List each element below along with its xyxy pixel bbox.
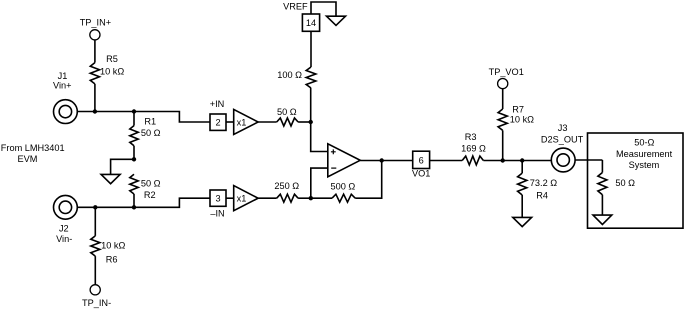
pin 6 VO1 bbox=[412, 151, 430, 178]
node junction R2-J2 bbox=[132, 205, 136, 209]
svg-text:EVM: EVM bbox=[17, 154, 37, 164]
svg-text:50-Ω: 50-Ω bbox=[634, 138, 654, 148]
svg-text:TP_IN-: TP_IN- bbox=[82, 298, 111, 308]
svg-text:x1: x1 bbox=[237, 194, 247, 204]
wire bbox=[311, 2, 336, 16]
svg-text:J3: J3 bbox=[558, 123, 568, 133]
block 50-&#937; measurement system bbox=[588, 133, 684, 228]
svg-text:J2: J2 bbox=[59, 224, 69, 234]
svg-text:VREF: VREF bbox=[283, 2, 308, 12]
connector J3 D2S_OUT bbox=[541, 123, 584, 172]
wire bbox=[311, 197, 332, 199]
pin 3 -IN bbox=[210, 190, 226, 219]
resistor 50 &#937; input bbox=[277, 107, 298, 126]
op-amp U1 bbox=[328, 144, 360, 177]
wire bbox=[133, 112, 135, 126]
node junction R4 bbox=[520, 158, 524, 162]
svg-text:VO1: VO1 bbox=[412, 169, 430, 179]
wire bbox=[601, 195, 603, 215]
resistor R4 73.2 &#937; bbox=[518, 173, 558, 201]
svg-text:x1: x1 bbox=[237, 117, 247, 127]
svg-text:R6: R6 bbox=[106, 254, 118, 264]
test point TP_IN+ bbox=[80, 17, 111, 39]
wire bbox=[133, 194, 135, 207]
resistor 50 &#937; termination bbox=[598, 173, 635, 195]
svg-text:73.2 Ω: 73.2 Ω bbox=[530, 178, 557, 188]
wire bbox=[258, 121, 277, 123]
wire bbox=[111, 159, 134, 174]
svg-text:Measurement: Measurement bbox=[616, 149, 673, 159]
svg-text:+IN: +IN bbox=[210, 99, 225, 109]
svg-text:3: 3 bbox=[215, 194, 220, 204]
svg-text:50 Ω: 50 Ω bbox=[141, 128, 161, 138]
svg-text:R4: R4 bbox=[536, 191, 548, 201]
resistor 100 &#937; bbox=[277, 67, 316, 88]
svg-text:R7: R7 bbox=[512, 104, 524, 114]
svg-text:50 Ω: 50 Ω bbox=[277, 107, 297, 117]
node junction 250-500 bbox=[309, 196, 313, 200]
buffer x1 upper bbox=[234, 109, 258, 134]
svg-text:2: 2 bbox=[215, 118, 220, 128]
svg-text:TP_VO1: TP_VO1 bbox=[489, 67, 524, 77]
svg-text:100 Ω: 100 Ω bbox=[277, 70, 302, 80]
wire bbox=[521, 195, 523, 217]
resistor R2 50 &#937; bbox=[130, 174, 161, 200]
node junction R5-J1 bbox=[93, 109, 97, 113]
wire bbox=[94, 84, 96, 112]
svg-text:Vin+: Vin+ bbox=[53, 80, 71, 90]
svg-text:14: 14 bbox=[306, 18, 316, 28]
svg-text:6: 6 bbox=[419, 156, 424, 166]
wire bbox=[430, 160, 463, 162]
connector J2 Vin- bbox=[54, 195, 78, 244]
wire bbox=[601, 160, 603, 173]
svg-text:500 Ω: 500 Ω bbox=[331, 181, 356, 191]
label From LMH3401 EVM bbox=[1, 143, 65, 164]
resistor R7 10 k&#937; bbox=[498, 104, 534, 130]
ground bbox=[327, 16, 346, 25]
svg-text:50 Ω: 50 Ω bbox=[615, 178, 635, 188]
test point TP_IN- bbox=[82, 285, 111, 308]
svg-text:TP_IN+: TP_IN+ bbox=[80, 17, 111, 27]
resistor R6 10 k&#937; bbox=[91, 236, 126, 264]
wire bbox=[77, 112, 210, 123]
wire bbox=[502, 89, 504, 109]
wire bbox=[298, 121, 311, 123]
node junction R1-J1 bbox=[132, 109, 136, 113]
wire bbox=[298, 197, 311, 199]
svg-text:–IN: –IN bbox=[210, 209, 224, 219]
svg-text:10 kΩ: 10 kΩ bbox=[100, 67, 124, 77]
wire bbox=[502, 130, 504, 160]
svg-text:R5: R5 bbox=[106, 54, 118, 64]
wire bbox=[77, 198, 210, 207]
svg-text:J1: J1 bbox=[58, 71, 68, 81]
svg-text:D2S_OUT: D2S_OUT bbox=[541, 135, 584, 145]
svg-text:R1: R1 bbox=[144, 116, 156, 126]
wire bbox=[311, 168, 328, 198]
svg-text:Vin-: Vin- bbox=[56, 234, 72, 244]
wire bbox=[226, 197, 234, 199]
test point TP_VO1 bbox=[489, 67, 524, 89]
node junction 50-100 bbox=[309, 120, 313, 124]
node junction R7 bbox=[501, 158, 505, 162]
buffer x1 lower bbox=[234, 186, 258, 211]
node junction R6-J2 bbox=[93, 205, 97, 209]
wire bbox=[258, 197, 277, 199]
wire bbox=[94, 256, 96, 285]
node junction R1-R2 bbox=[132, 157, 136, 161]
wire bbox=[311, 122, 328, 152]
resistor R5 10 k&#937; bbox=[90, 54, 124, 84]
svg-text:169 Ω: 169 Ω bbox=[461, 143, 486, 153]
wire bbox=[355, 161, 382, 199]
wire bbox=[575, 159, 602, 161]
pin 2 +IN bbox=[210, 99, 226, 130]
wire bbox=[310, 88, 312, 122]
resistor 250 &#937; bbox=[274, 181, 299, 202]
ground bbox=[513, 217, 532, 226]
svg-text:System: System bbox=[629, 160, 660, 170]
svg-text:10 kΩ: 10 kΩ bbox=[101, 241, 125, 251]
wire bbox=[483, 160, 551, 162]
svg-text:50 Ω: 50 Ω bbox=[141, 178, 161, 188]
wire bbox=[226, 121, 234, 123]
resistor R3 169 &#937; bbox=[461, 132, 486, 165]
wire bbox=[310, 31, 312, 67]
svg-text:10 kΩ: 10 kΩ bbox=[510, 114, 534, 124]
wire bbox=[94, 40, 96, 63]
pin 14 VREF bbox=[283, 2, 320, 32]
wire bbox=[133, 146, 135, 160]
connector J1 Vin+ bbox=[53, 71, 77, 124]
resistor 500 &#937; bbox=[331, 181, 356, 202]
svg-text:R2: R2 bbox=[144, 190, 156, 200]
ground bbox=[101, 174, 120, 183]
svg-text:250 Ω: 250 Ω bbox=[274, 181, 299, 191]
ground bbox=[593, 215, 612, 224]
svg-text:From LMH3401: From LMH3401 bbox=[1, 143, 65, 153]
resistor R1 50 &#937; bbox=[130, 116, 161, 145]
node junction output bbox=[380, 158, 384, 162]
wire bbox=[521, 161, 523, 174]
wire bbox=[94, 207, 96, 236]
wire bbox=[360, 160, 413, 162]
svg-text:R3: R3 bbox=[465, 132, 477, 142]
